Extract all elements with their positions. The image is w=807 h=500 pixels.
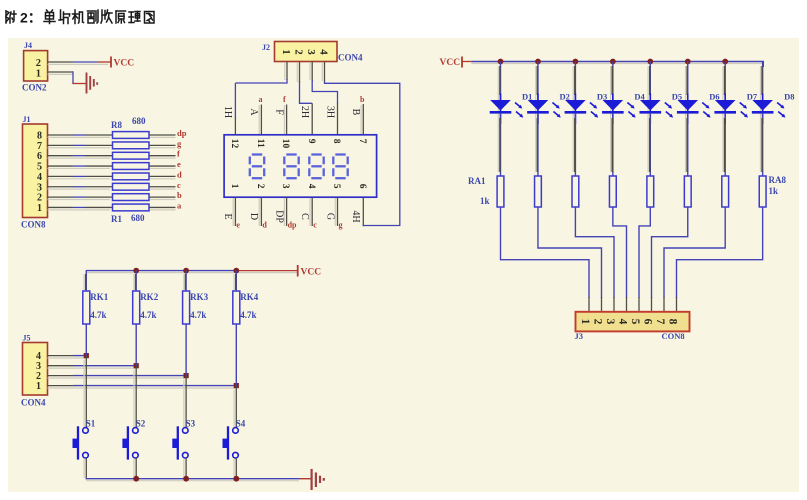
title char 原 — [116, 11, 126, 23]
LED D4 symbol — [603, 100, 624, 111]
svg-text:10: 10 — [280, 139, 290, 149]
power VCC symbol at J4 — [110, 57, 112, 68]
svg-text:g: g — [339, 221, 343, 230]
svg-text:11: 11 — [255, 139, 265, 148]
wire J1 pin 2 segment 1 — [48, 196, 73, 198]
wire LED8 anode — [762, 62, 764, 101]
ground symbol bottom — [311, 469, 313, 490]
svg-text:VCC: VCC — [301, 268, 322, 278]
svg-text:b: b — [177, 190, 182, 200]
wire RK3 top — [185, 271, 187, 291]
resistor RA6 body — [684, 176, 691, 207]
wire J2 pin3 vertical — [311, 62, 313, 82]
svg-text:4: 4 — [37, 172, 42, 183]
svg-text:3: 3 — [37, 182, 42, 193]
LED D2 symbol — [528, 100, 549, 111]
resistor RK3 body — [183, 291, 190, 324]
svg-text:D8: D8 — [784, 92, 794, 102]
svg-text:2: 2 — [36, 58, 41, 69]
svg-text:DP: DP — [273, 210, 284, 223]
junction dot LED4 — [610, 59, 616, 65]
wire J1 pin 6 output — [149, 155, 176, 157]
wire J2 pin3 blue elbow — [312, 80, 337, 104]
wire J2 pin4 vertical — [324, 62, 326, 83]
ground red stub — [299, 478, 311, 480]
wire J2 pin4 blue route to 4H — [325, 82, 400, 226]
wire LED2 anode — [537, 62, 539, 101]
wire RK4 to junction blue — [235, 324, 237, 386]
resistor RK4 body — [233, 291, 240, 324]
LED D3 arrows — [590, 103, 596, 108]
wire J1 pin 7 segment 1 — [48, 144, 73, 146]
svg-text:F: F — [273, 109, 284, 115]
resistor R8 body — [113, 132, 150, 139]
resistor RA1 body — [497, 176, 504, 207]
svg-text:VCC: VCC — [440, 58, 461, 68]
wire LED7 anode — [724, 62, 726, 101]
LED D7 symbol — [715, 100, 736, 111]
wire RK2 top — [135, 271, 137, 291]
resistor RK2 body — [133, 291, 140, 324]
svg-text:e: e — [177, 159, 181, 169]
svg-text:4H: 4H — [350, 210, 361, 222]
wire J1 pin 5 segment 2 blue — [73, 165, 86, 167]
svg-text:CON2: CON2 — [22, 83, 47, 93]
svg-text:3: 3 — [280, 184, 290, 189]
wire J5 pin 3 dark — [48, 365, 74, 367]
svg-text:RK1: RK1 — [90, 292, 109, 302]
power VCC symbol right — [461, 57, 463, 68]
7-segment digit 1 — [252, 153, 262, 155]
wire RA8 to J3 pin 8 — [677, 207, 763, 298]
resistor R4 body — [113, 173, 150, 180]
svg-text:3H: 3H — [324, 106, 335, 118]
wire J1 pin 7 output — [149, 144, 176, 146]
resistor R3 body — [113, 183, 150, 190]
svg-text:6: 6 — [357, 184, 367, 189]
connector J3 box — [576, 312, 690, 332]
svg-text:d: d — [262, 221, 267, 230]
resistor R1 body — [113, 204, 150, 211]
junction dot rail RK3 — [183, 268, 189, 274]
wire J1 pin 4 output — [149, 175, 176, 177]
wire 3H stub — [337, 104, 339, 136]
svg-text:VCC: VCC — [114, 59, 135, 69]
svg-text:C: C — [299, 213, 310, 220]
LED D8 symbol — [752, 100, 773, 111]
wire J5 pin 2 dark — [48, 375, 74, 377]
svg-text:1: 1 — [229, 184, 239, 189]
svg-text:RA1: RA1 — [468, 176, 486, 186]
wire J4 pin1 red — [72, 83, 86, 85]
wire J1 pin 6 segment 3 — [85, 155, 113, 157]
wire 2H stub — [311, 103, 313, 135]
svg-text:a: a — [259, 95, 263, 104]
wire J4 pin2 red — [98, 61, 111, 63]
title char 单 — [44, 10, 55, 24]
svg-text:J5: J5 — [23, 334, 31, 343]
wire junction to S4 — [235, 386, 237, 428]
wire J4 pin2 dark — [48, 61, 73, 63]
title char 机 — [73, 10, 84, 24]
LED D5 arrows — [665, 103, 671, 108]
svg-text:4: 4 — [306, 184, 316, 189]
wire J1 pin 2 output — [149, 196, 176, 198]
wire junction to S2 — [135, 366, 137, 428]
wire RA5 to J3 pin 5 — [639, 207, 650, 298]
junction dot LED1 — [498, 59, 504, 65]
wire LED3 cathode — [574, 113, 576, 176]
svg-text:2: 2 — [255, 184, 265, 189]
wire J3 pin 6 stub — [651, 297, 653, 312]
svg-text:1: 1 — [36, 69, 41, 80]
wire LED6 anode — [687, 62, 689, 101]
switch S1 symbol — [83, 428, 89, 434]
svg-text:RK4: RK4 — [240, 292, 258, 302]
svg-text:RA8: RA8 — [769, 175, 787, 185]
svg-text:S4: S4 — [236, 419, 246, 429]
wire J3 pin 2 stub — [601, 297, 603, 312]
junction dot J5 pin 2 — [184, 373, 189, 378]
wire J5 pin 1 blue — [73, 385, 236, 387]
7-segment digit 2 — [286, 153, 296, 155]
wire J1 pin 1 segment 1 — [48, 206, 73, 208]
wire J1 pin 8 segment 2 blue — [73, 134, 86, 136]
svg-text:5: 5 — [629, 319, 641, 325]
svg-text:c: c — [313, 221, 317, 230]
svg-text:6: 6 — [642, 319, 654, 325]
svg-text:dp: dp — [177, 128, 187, 138]
svg-text:J2: J2 — [262, 43, 270, 52]
wire J1 pin 2 segment 2 blue — [73, 196, 86, 198]
wire junction to S1 — [85, 356, 87, 428]
svg-text:A: A — [248, 108, 259, 116]
junction dot J5 pin 1 — [234, 383, 239, 388]
svg-text:7: 7 — [654, 319, 666, 325]
svg-text:2H: 2H — [299, 106, 310, 118]
wire D stub — [260, 198, 262, 227]
svg-text:680: 680 — [132, 116, 146, 126]
title char 版 — [101, 10, 112, 23]
title char 副 — [88, 10, 99, 23]
LED D2 arrows — [552, 103, 558, 108]
svg-text:1k: 1k — [480, 196, 490, 206]
wire RA2 to J3 pin 2 — [538, 207, 602, 298]
wire J2 pin2 vertical — [299, 62, 301, 83]
svg-text:2：: 2： — [20, 10, 42, 26]
wire RK2 to junction blue — [135, 324, 137, 366]
LED D6 symbol — [677, 100, 698, 111]
svg-text:6: 6 — [37, 151, 42, 162]
ground symbol at J4 — [86, 73, 88, 94]
resistor RA5 body — [647, 176, 654, 207]
RK top rail blue — [86, 270, 237, 272]
junction dot LED7 — [722, 59, 728, 65]
wire LED5 anode — [649, 62, 651, 101]
svg-text:c: c — [177, 180, 181, 190]
wire F stub — [286, 105, 288, 136]
title char 片 — [59, 10, 70, 24]
svg-text:J3: J3 — [575, 331, 584, 341]
wire RK3 to junction blue — [185, 324, 187, 376]
svg-text:3: 3 — [305, 49, 317, 55]
wire J5 pin 2 blue — [73, 375, 186, 377]
svg-text:1: 1 — [579, 319, 591, 325]
wire junction to S3 — [185, 376, 187, 428]
svg-text:2: 2 — [37, 193, 42, 204]
7-segment digit 4 — [335, 153, 345, 155]
LED D4 arrows — [627, 103, 633, 108]
LED D1 symbol — [490, 100, 511, 111]
wire J1 pin 4 segment 1 — [48, 175, 73, 177]
svg-text:R8: R8 — [111, 120, 122, 130]
svg-text:CON8: CON8 — [662, 331, 685, 341]
svg-text:4.7k: 4.7k — [190, 310, 206, 320]
wire S2 to rail — [135, 458, 137, 479]
svg-text:CON4: CON4 — [338, 53, 363, 63]
svg-text:4.7k: 4.7k — [240, 310, 256, 320]
wire LED6 cathode — [687, 113, 689, 176]
svg-text:CON8: CON8 — [21, 220, 46, 230]
switch bottom rail blue — [86, 478, 299, 480]
7-segment digit 3 — [311, 153, 321, 155]
wire RA3 to J3 pin 3 — [575, 207, 614, 298]
wire S4 to rail — [235, 458, 237, 479]
wire 1H stub — [234, 117, 236, 135]
svg-text:B: B — [350, 109, 361, 116]
svg-text:1: 1 — [36, 381, 41, 392]
wire J1 pin 1 segment 3 — [85, 206, 113, 208]
wire LED3 anode — [574, 62, 576, 101]
wire E stub — [234, 198, 236, 227]
wire S1 to rail — [85, 458, 87, 479]
svg-text:f: f — [283, 95, 286, 104]
wire J3 pin 7 stub — [663, 297, 665, 312]
wire J1 pin 8 segment 1 — [48, 134, 73, 136]
junction dot LED6 — [685, 59, 691, 65]
wire J2 pin2 blue down — [300, 82, 313, 104]
wire B stub — [362, 104, 364, 135]
svg-text:12: 12 — [229, 139, 239, 149]
svg-text:CON4: CON4 — [21, 398, 46, 408]
svg-text:J1: J1 — [23, 115, 31, 124]
svg-text:1: 1 — [37, 203, 42, 214]
resistor R2 body — [113, 194, 150, 201]
svg-text:7: 7 — [357, 139, 367, 144]
wire J3 pin 3 stub — [613, 297, 615, 312]
title char 理 — [129, 12, 140, 23]
svg-text:4.7k: 4.7k — [90, 310, 106, 320]
svg-text:S3: S3 — [186, 419, 196, 429]
wire J3 pin 8 stub — [676, 297, 678, 312]
junction dot bottom rail — [133, 476, 139, 482]
svg-text:680: 680 — [131, 213, 145, 223]
svg-text:4.7k: 4.7k — [140, 310, 156, 320]
wire S1 corner — [85, 478, 87, 479]
junction dot rail RK2 — [133, 268, 139, 274]
wire J1 pin 5 segment 3 — [85, 165, 113, 167]
resistor RK1 body — [83, 291, 90, 324]
wire J3 pin 1 stub — [588, 297, 590, 312]
svg-text:R1: R1 — [111, 214, 122, 224]
svg-text:8: 8 — [331, 139, 341, 144]
LED D5 symbol — [640, 100, 661, 111]
wire J1 pin 1 segment 2 blue — [73, 206, 86, 208]
title char 附 — [6, 11, 16, 23]
wire J1 pin 2 segment 3 — [85, 196, 113, 198]
wire RA1 to J3 pin 1 — [501, 207, 590, 298]
title char 图 — [145, 12, 155, 24]
svg-text:S1: S1 — [86, 419, 96, 429]
wire LED5 cathode — [649, 113, 651, 176]
wire J5 pin 4 blue — [73, 355, 86, 357]
wire J5 pin 1 dark — [48, 385, 74, 387]
wire C stub — [311, 198, 313, 227]
wire J1 pin 4 segment 2 blue — [73, 175, 86, 177]
svg-text:4: 4 — [318, 49, 330, 55]
wire J5 pin 4 dark — [48, 355, 74, 357]
wire LED8 cathode — [762, 113, 764, 176]
wire J1 pin 5 segment 1 — [48, 165, 73, 167]
svg-text:b: b — [360, 95, 365, 104]
junction dot LED5 — [647, 59, 653, 65]
wire RA7 to J3 pin 7 — [664, 207, 725, 298]
svg-text:2: 2 — [293, 49, 305, 55]
wire G stub — [337, 198, 339, 227]
wire LED2 cathode — [537, 113, 539, 176]
svg-text:S2: S2 — [136, 419, 146, 429]
svg-text:J4: J4 — [24, 41, 32, 50]
wire J1 pin 1 output — [149, 206, 176, 208]
connector J4 box — [24, 51, 48, 81]
svg-text:d: d — [177, 169, 182, 179]
switch S4 symbol — [233, 428, 239, 434]
wire J4 pin1 dark — [48, 71, 73, 73]
wire 4H stub — [362, 198, 364, 227]
svg-text:RK2: RK2 — [140, 292, 159, 302]
wire J1 pin 4 segment 3 — [85, 175, 113, 177]
power VCC symbol bottom — [297, 265, 299, 277]
wire J1 pin 3 segment 3 — [85, 186, 113, 188]
junction dot J5 pin 4 — [84, 353, 89, 358]
junction dot rail RK4 — [233, 268, 239, 274]
wire J1 pin 6 segment 2 blue — [73, 155, 86, 157]
junction dot bottom rail — [183, 476, 189, 482]
wire J1 pin 3 output — [149, 186, 176, 188]
resistor R5 body — [113, 163, 150, 170]
wire J4 pin2 blue — [73, 61, 99, 63]
svg-text:5: 5 — [331, 184, 341, 189]
wire S3 to rail — [185, 458, 187, 479]
junction dot J5 pin 3 — [134, 363, 139, 368]
resistor RA4 body — [609, 176, 616, 207]
resistor RA8 body — [759, 176, 766, 207]
wire J1 pin 8 output — [149, 134, 176, 136]
svg-text:8: 8 — [667, 319, 679, 325]
LED D6 arrows — [702, 103, 708, 108]
svg-text:G: G — [324, 213, 335, 220]
wire RA4 to J3 pin 4 — [613, 207, 627, 298]
wire LED7 cathode — [724, 113, 726, 176]
svg-text:7: 7 — [37, 141, 42, 152]
connector J1 box — [23, 124, 48, 218]
wire 1H vertical blue — [234, 83, 236, 118]
resistor RA7 body — [722, 176, 729, 207]
svg-text:8: 8 — [37, 131, 42, 142]
svg-text:3: 3 — [604, 319, 616, 325]
LED D8 arrows — [777, 103, 783, 108]
svg-text:1H: 1H — [222, 106, 233, 118]
wire A stub — [260, 105, 262, 136]
wire J3 pin 5 stub — [638, 297, 640, 312]
wire J1 pin 6 segment 1 — [48, 155, 73, 157]
wire VCC red stub — [462, 61, 471, 63]
wire LED1 cathode — [500, 113, 502, 176]
wire J1 pin 3 segment 2 blue — [73, 186, 86, 188]
junction dot LED3 — [573, 59, 579, 65]
wire RK1 to junction blue — [85, 324, 87, 356]
wire LED1 anode — [500, 62, 502, 101]
wire J5 pin 3 blue — [73, 365, 136, 367]
svg-text:RK3: RK3 — [190, 292, 209, 302]
wire J3 pin 4 stub — [626, 297, 628, 312]
wire J2 pin1 vertical — [286, 62, 288, 81]
resistor RA3 body — [572, 176, 579, 207]
wire RK1 top — [85, 270, 87, 291]
svg-text:dp: dp — [288, 221, 297, 230]
svg-text:4: 4 — [617, 319, 629, 325]
wire DP stub — [286, 198, 288, 227]
wire J1 pin 7 segment 3 — [85, 144, 113, 146]
svg-text:e: e — [236, 221, 240, 230]
LED D3 symbol — [565, 100, 586, 111]
display box — [224, 135, 377, 197]
svg-text:1: 1 — [280, 49, 292, 55]
connector J2 box — [275, 42, 338, 62]
wire RK4 top — [235, 271, 237, 291]
svg-text:f: f — [177, 149, 180, 159]
wire LED4 cathode — [612, 113, 614, 176]
wire J1 pin 7 segment 2 blue — [73, 144, 86, 146]
switch S3 symbol — [183, 428, 189, 434]
resistor RA2 body — [535, 176, 542, 207]
wire J2 pin1 elbow blue — [235, 79, 287, 83]
switch S2 symbol — [133, 428, 139, 434]
resistor R7 body — [113, 142, 150, 149]
wire LED4 anode — [612, 62, 614, 101]
wire LED8 corner — [762, 61, 764, 67]
wire J1 pin 3 segment 1 — [48, 186, 73, 188]
svg-text:2: 2 — [592, 319, 604, 325]
svg-text:9: 9 — [306, 139, 316, 144]
junction dot bottom rail — [233, 476, 239, 482]
svg-text:D: D — [248, 213, 259, 220]
resistor R6 body — [113, 152, 150, 159]
RK top rail red — [237, 270, 297, 272]
svg-text:E: E — [222, 213, 233, 219]
svg-text:5: 5 — [37, 162, 42, 173]
wire J4 pin1 blue — [72, 71, 74, 83]
wire RA6 to J3 pin 6 — [652, 207, 688, 298]
LED D1 arrows — [515, 103, 521, 108]
VCC rail blue — [471, 61, 763, 63]
LED D7 arrows — [740, 103, 746, 108]
wire J1 pin 8 segment 3 — [85, 134, 113, 136]
svg-text:1k: 1k — [769, 186, 779, 196]
wire J1 pin 5 output — [149, 165, 176, 167]
junction dot LED2 — [535, 59, 541, 65]
connector J5 box — [23, 343, 48, 396]
